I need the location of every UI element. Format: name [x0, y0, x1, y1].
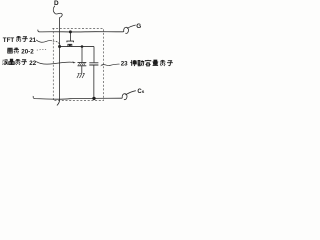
svg-text:TFT: TFT — [3, 37, 15, 44]
leader aux 23 — [102, 64, 120, 66]
junction dot pixel node — [81, 45, 84, 48]
svg-text:21: 21 — [29, 37, 36, 44]
label TFT element 21 — [3, 36, 37, 44]
junction dot gate-G — [69, 30, 72, 33]
leader aux 23 arrowhead — [100, 64, 103, 66]
svg-text:20-2: 20-2 — [21, 48, 34, 55]
storage line Cs pigtail and tail to label — [122, 91, 136, 100]
auxiliary capacitor 23 : plates — [89, 63, 98, 65]
gate line G — [38, 30, 124, 32]
junction dot source-D — [58, 45, 61, 48]
leader pixel 20-2 (dashed) — [37, 48, 47, 51]
leader LC 22 — [36, 62, 73, 65]
liquid crystal element 22 : top wire — [81, 47, 83, 63]
label liquid crystal element 22 — [3, 59, 37, 67]
TFT element 21 : channel dot — [69, 44, 71, 46]
svg-text:23: 23 — [121, 61, 128, 68]
storage line Cs — [33, 96, 122, 99]
liquid crystal element 22 : plates — [78, 62, 87, 65]
TFT element 21 : channel bump — [68, 44, 72, 46]
label auxiliary capacitor 23 — [121, 60, 173, 68]
leader TFT 21 — [36, 40, 57, 42]
label pixel 20-2 — [7, 48, 34, 56]
svg-text:Cs: Cs — [137, 89, 144, 95]
leader LC 22 arrowhead — [72, 61, 75, 63]
auxiliary capacitor 23 : branch — [93, 47, 95, 63]
pixel box 20-2 (dashed boundary) — [52, 28, 103, 100]
source-drain wire — [60, 46, 94, 48]
svg-text:22: 22 — [29, 60, 36, 67]
data line D — [57, 17, 60, 105]
liquid crystal element 22 : hatch — [78, 63, 85, 65]
junction dot aux-Cs — [92, 97, 95, 100]
liquid crystal element 22 : bottom stub — [81, 66, 83, 73]
data line D leader pigtail from label — [53, 6, 62, 18]
gate line G pigtail and tail to label — [124, 25, 136, 33]
svg-text:G: G — [136, 23, 141, 30]
auxiliary capacitor 23 : bottom wire — [93, 65, 95, 98]
leader TFT 21 arrowhead — [58, 42, 61, 45]
TFT element 21 : gate stem — [69, 32, 71, 41]
svg-text:D: D — [54, 0, 59, 7]
TFT element 21 : gate bar — [67, 41, 74, 42]
liquid crystal element 22 : 777 marks — [77, 74, 85, 78]
